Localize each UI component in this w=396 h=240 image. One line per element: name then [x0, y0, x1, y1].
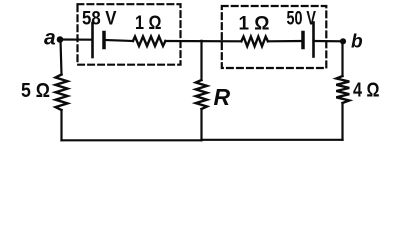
wire node b down to 4ohm resistor	[341, 41, 343, 76]
bottom wire right segment	[202, 139, 343, 141]
wire battery V2 to node b	[314, 40, 344, 42]
resistor 4ohm zigzag	[336, 76, 349, 103]
svg-text:1 Ω: 1 Ω	[239, 14, 270, 35]
wire middle junction down to resistor R	[200, 41, 202, 80]
node a junction dot	[57, 36, 64, 43]
wire resistor R to bottom wire	[200, 109, 202, 140]
node b junction dot	[340, 38, 346, 44]
battery V1 long plate	[91, 23, 94, 57]
wire R1 to R2 through middle junction	[165, 40, 241, 42]
svg-text:a: a	[44, 27, 56, 50]
resistor R zigzag	[196, 80, 207, 109]
wire node a to battery V1	[60, 38, 92, 40]
resistor R1 1ohm zigzag	[133, 37, 165, 47]
dashed box around left source (58V + 1ohm)	[78, 4, 181, 64]
bottom wire left segment	[62, 139, 202, 141]
wire 5ohm to bottom left corner	[60, 110, 62, 140]
resistor 5ohm zigzag	[56, 75, 68, 111]
svg-text:4 Ω: 4 Ω	[353, 80, 380, 102]
svg-text:b: b	[351, 32, 363, 53]
resistor R2 1ohm zigzag	[241, 37, 268, 47]
svg-text:R: R	[214, 84, 231, 110]
svg-text:1 Ω: 1 Ω	[135, 13, 162, 34]
wire R2 to battery V2	[268, 40, 303, 42]
svg-text:50 V: 50 V	[287, 8, 317, 29]
battery V1 short plate	[102, 33, 106, 48]
battery V2 short plate	[301, 33, 305, 48]
wire 4ohm to bottom right corner	[341, 103, 343, 140]
battery V2 long plate	[312, 23, 315, 57]
wire node a down to 5ohm resistor	[61, 40, 62, 75]
svg-text:5 Ω: 5 Ω	[21, 80, 50, 102]
svg-text:58 V: 58 V	[82, 8, 117, 29]
wire battery V1 to resistor R1	[104, 40, 133, 41]
dashed box around right source (1ohm + 50V)	[222, 6, 326, 68]
